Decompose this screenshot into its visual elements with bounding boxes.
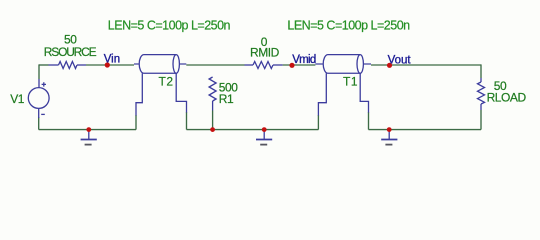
svg-text:Vout: Vout [388, 54, 412, 66]
svg-text:RSOURCE: RSOURCE [44, 45, 97, 59]
svg-text:LEN=5 C=100p L=250n: LEN=5 C=100p L=250n [287, 18, 410, 32]
svg-text:R1: R1 [219, 92, 234, 106]
svg-text:V1: V1 [10, 92, 25, 106]
svg-text:Vin: Vin [104, 53, 120, 65]
svg-text:T2: T2 [159, 74, 174, 88]
svg-text:LEN=5 C=100p L=250n: LEN=5 C=100p L=250n [108, 19, 231, 33]
svg-text:T1: T1 [343, 75, 358, 89]
svg-text:Vmid: Vmid [292, 54, 316, 66]
svg-text:RMID: RMID [250, 45, 280, 59]
svg-text:RLOAD: RLOAD [487, 91, 527, 105]
